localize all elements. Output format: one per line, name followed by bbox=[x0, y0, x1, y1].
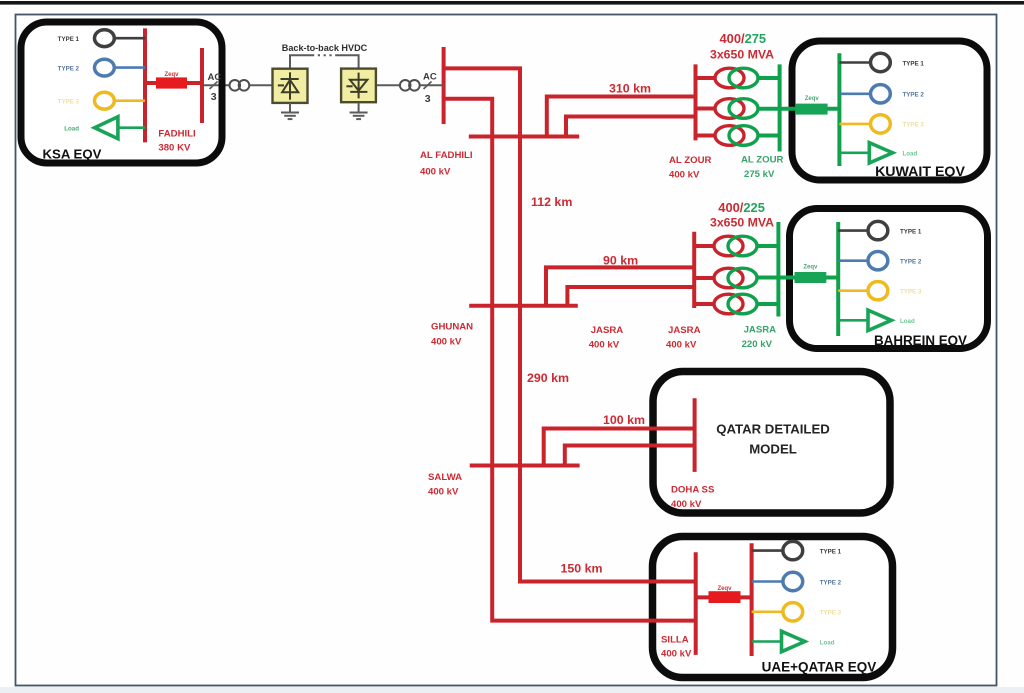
generator TYPE 3 (BAHREIN) wire bbox=[838, 289, 868, 292]
svg-text:TYPE 3: TYPE 3 bbox=[900, 289, 922, 296]
svg-text:AL ZOUR: AL ZOUR bbox=[741, 155, 784, 166]
bus JASRA 400 kV bbox=[692, 232, 696, 308]
wire transformer to rectifier bbox=[249, 84, 272, 86]
ground (rectifier) bbox=[281, 103, 299, 119]
svg-text:KUWAIT EQV: KUWAIT EQV bbox=[875, 164, 965, 180]
thyristor (inverter, pointing down) bbox=[346, 73, 367, 99]
svg-text:3: 3 bbox=[425, 93, 431, 105]
generator TYPE 1 (KSA) wire bbox=[114, 37, 145, 40]
svg-text:MODEL: MODEL bbox=[749, 442, 797, 457]
svg-text:Load: Load bbox=[64, 126, 79, 133]
wire KSA bar to converter transformer bbox=[202, 84, 229, 86]
svg-text:Zeqv: Zeqv bbox=[164, 72, 179, 78]
generator TYPE 2 (BAHREIN) bbox=[868, 252, 888, 270]
load arrow (KSA) wire bbox=[118, 126, 145, 129]
generator TYPE 3 (UAE) wire bbox=[752, 610, 782, 613]
svg-text:Zeqv: Zeqv bbox=[805, 96, 820, 102]
wire FADHILI impedance link bbox=[145, 81, 202, 85]
svg-text:400 kV: 400 kV bbox=[669, 170, 700, 181]
generator TYPE 2 (KUWAIT) wire bbox=[839, 93, 870, 96]
wire second circuit to AL ZOUR bbox=[566, 117, 696, 137]
generator TYPE 1 (BAHREIN) bbox=[868, 221, 888, 239]
generator TYPE 2 (KSA) wire bbox=[114, 66, 145, 69]
generator TYPE 1 (UAE) bbox=[783, 541, 803, 559]
load arrow (KUWAIT) wire bbox=[839, 152, 869, 155]
transformer JASRA row1 bbox=[714, 236, 757, 256]
load arrow (BAHREIN) wire bbox=[838, 319, 868, 322]
wire transformer stub red (AL ZOUR row1) bbox=[696, 76, 717, 80]
phase tick (right AC/3) bbox=[424, 82, 432, 90]
wire transformer stub red (AL ZOUR row3) bbox=[696, 134, 717, 138]
wire transformer to AL FADHILI bus bbox=[420, 84, 444, 86]
bus UAE equivalent 400 kV bbox=[750, 543, 754, 656]
svg-text:400 kV: 400 kV bbox=[420, 167, 451, 178]
wire transformer stub red (JASRA row3) bbox=[694, 302, 715, 306]
svg-text:JASRA: JASRA bbox=[591, 325, 624, 336]
svg-text:TYPE 2: TYPE 2 bbox=[58, 66, 80, 73]
node DC link bbox=[290, 55, 312, 68]
svg-text:Zeqv: Zeqv bbox=[717, 586, 732, 592]
UAE+QATAR EQV box bbox=[653, 537, 893, 678]
svg-text:TYPE 2: TYPE 2 bbox=[903, 92, 925, 99]
bottom light band bbox=[0, 687, 1024, 693]
bus DOHA SS 400 kV bbox=[693, 398, 697, 472]
phase tick (left AC/3) bbox=[210, 82, 218, 90]
wire inverter to transformer bbox=[376, 84, 400, 86]
generator TYPE 3 (KUWAIT) wire bbox=[839, 123, 870, 126]
impedance Zeqv (KSA) bbox=[156, 77, 187, 88]
generator TYPE 3 (KSA) bbox=[95, 92, 115, 109]
wire transformer stub red (JASRA row1) bbox=[694, 244, 715, 248]
svg-text:Load: Load bbox=[820, 639, 835, 646]
bus SALWA 400 kV bbox=[470, 464, 580, 468]
transformer AL ZOUR row2 bbox=[715, 99, 758, 119]
svg-text:400/275: 400/275 bbox=[720, 31, 767, 46]
svg-text:275 kV: 275 kV bbox=[744, 169, 775, 180]
generator TYPE 1 (KUWAIT) bbox=[871, 53, 891, 71]
svg-text:400 kV: 400 kV bbox=[589, 340, 620, 351]
generator TYPE 1 (BAHREIN) wire bbox=[838, 229, 868, 232]
load arrow (UAE, pointing right) bbox=[782, 631, 805, 651]
svg-text:150 km: 150 km bbox=[561, 562, 603, 576]
svg-text:AC: AC bbox=[423, 72, 437, 83]
svg-text:SILLA: SILLA bbox=[661, 635, 689, 646]
generator TYPE 3 (UAE) bbox=[783, 603, 803, 621]
wire transformer stub green (JASRA row1) bbox=[756, 244, 778, 248]
wire Zeqv link AL ZOUR to KUWAIT bbox=[757, 107, 839, 111]
node KSA boundary bar bbox=[200, 48, 204, 123]
converter valve box (inverter) bbox=[341, 69, 376, 103]
wire jumper below AL FADHILI bbox=[469, 135, 579, 139]
svg-text:AL ZOUR: AL ZOUR bbox=[669, 155, 712, 166]
svg-text:AL FADHILI: AL FADHILI bbox=[420, 150, 473, 161]
wire Zeqv link JASRA to BAHREIN bbox=[756, 276, 838, 280]
BAHREIN EQV box bbox=[790, 209, 988, 349]
svg-text:3x650 MVA: 3x650 MVA bbox=[710, 47, 774, 61]
svg-text:DOHA SS: DOHA SS bbox=[671, 485, 715, 496]
svg-text:TYPE 3: TYPE 3 bbox=[820, 610, 842, 617]
generator TYPE 2 (KUWAIT) bbox=[871, 85, 891, 103]
wire transformer stub red (JASRA row2) bbox=[694, 276, 715, 280]
wire second circuit to JASRA bbox=[567, 287, 694, 306]
wire GHUNAN jumper bbox=[469, 304, 578, 308]
bus KUWAIT equivalent bbox=[837, 53, 841, 166]
svg-text:BAHREIN EQV: BAHREIN EQV bbox=[874, 333, 967, 348]
wire line 90 km to JASRA bbox=[546, 267, 694, 305]
wire transformer stub red (AL ZOUR row2) bbox=[696, 107, 717, 111]
generator TYPE 2 (UAE) wire bbox=[752, 580, 782, 583]
svg-text:KSA EQV: KSA EQV bbox=[43, 147, 102, 162]
svg-text:400 kV: 400 kV bbox=[661, 649, 692, 660]
svg-text:TYPE 1: TYPE 1 bbox=[58, 36, 80, 43]
svg-text:TYPE 2: TYPE 2 bbox=[820, 579, 842, 586]
load arrow (KSA, pointing left) bbox=[95, 117, 118, 139]
generator TYPE 2 (UAE) bbox=[783, 572, 803, 590]
svg-text:90 km: 90 km bbox=[603, 254, 638, 268]
svg-text:380 KV: 380 KV bbox=[158, 143, 191, 154]
svg-text:TYPE 2: TYPE 2 bbox=[900, 259, 922, 266]
transformer JASRA row2 bbox=[714, 268, 757, 288]
generator TYPE 1 (KUWAIT) wire bbox=[839, 61, 870, 64]
KUWAIT EQV box bbox=[792, 41, 987, 180]
svg-text:3x650 MVA: 3x650 MVA bbox=[710, 216, 774, 230]
bus AL ZOUR 400 kV bbox=[694, 64, 698, 140]
svg-text:400 kV: 400 kV bbox=[428, 487, 459, 498]
svg-text:Load: Load bbox=[903, 150, 918, 157]
svg-text:TYPE 3: TYPE 3 bbox=[903, 122, 925, 129]
load arrow (UAE) wire bbox=[752, 640, 782, 643]
generator TYPE 2 (KSA) bbox=[95, 59, 115, 76]
svg-text:310 km: 310 km bbox=[609, 82, 651, 96]
transformer AL ZOUR row1 bbox=[715, 68, 758, 88]
svg-text:Back-to-back HVDC: Back-to-back HVDC bbox=[282, 43, 368, 53]
transformer T2 (AL FADHILI side) bbox=[400, 80, 411, 91]
wire transformer stub green (JASRA row3) bbox=[756, 302, 778, 306]
KSA box border patch over wire bbox=[219, 81, 226, 90]
svg-text:GHUNAN: GHUNAN bbox=[431, 322, 473, 333]
generator TYPE 1 (KSA) bbox=[95, 30, 115, 47]
svg-text:FADHILI: FADHILI bbox=[158, 129, 196, 140]
svg-text:220 kV: 220 kV bbox=[742, 339, 773, 350]
svg-text:112 km: 112 km bbox=[531, 195, 572, 209]
svg-text:TYPE 1: TYPE 1 bbox=[903, 60, 925, 67]
wire second circuit to DOHA SS bbox=[565, 446, 695, 466]
transformer JASRA row3 bbox=[714, 294, 757, 314]
bus SILLA 400 kV bbox=[694, 552, 698, 655]
transformer AL ZOUR row3 bbox=[715, 126, 758, 146]
svg-text:SALWA: SALWA bbox=[428, 472, 462, 483]
impedance Zeqv (KUWAIT) bbox=[796, 104, 828, 115]
wire transformer stub green (AL ZOUR row3) bbox=[757, 134, 780, 138]
KSA EQV box bbox=[21, 22, 222, 163]
svg-text:UAE+QATAR EQV: UAE+QATAR EQV bbox=[762, 660, 877, 675]
svg-text:TYPE 1: TYPE 1 bbox=[900, 228, 922, 235]
generator TYPE 1 (UAE) wire bbox=[752, 549, 782, 552]
load arrow (BAHREIN, pointing right) bbox=[868, 310, 891, 330]
wire SILLA to UAE impedance link bbox=[696, 595, 752, 599]
top black bar bbox=[0, 1, 1024, 5]
wire line 100 km to DOHA SS bbox=[544, 429, 695, 466]
generator TYPE 3 (KSA) wire bbox=[114, 99, 145, 102]
svg-text:JASRA: JASRA bbox=[668, 325, 701, 336]
svg-text:QATAR DETAILED: QATAR DETAILED bbox=[716, 422, 830, 437]
bus BAHREIN equivalent bbox=[836, 222, 840, 336]
svg-text:290 km: 290 km bbox=[527, 371, 569, 385]
bus FADHILI 380 kV bbox=[143, 28, 147, 142]
ground (inverter) bbox=[350, 102, 368, 119]
generator TYPE 2 (BAHREIN) wire bbox=[838, 259, 868, 262]
svg-text:TYPE 1: TYPE 1 bbox=[820, 548, 842, 555]
thyristor (rectifier, pointing up) bbox=[278, 72, 299, 99]
svg-text:400 kV: 400 kV bbox=[431, 337, 462, 348]
wire AL FADHILI to west feeder (goes south to 150 km line, SILLA) bbox=[444, 68, 696, 581]
svg-text:3: 3 bbox=[211, 91, 217, 103]
bus JASRA 220 kV bbox=[776, 222, 780, 317]
wire line 310 km to AL ZOUR bbox=[547, 97, 696, 137]
transformer T1 (KSA side) bbox=[230, 80, 241, 91]
generator TYPE 3 (BAHREIN) bbox=[868, 282, 888, 300]
svg-text:400 kV: 400 kV bbox=[671, 499, 702, 510]
svg-text:400 kV: 400 kV bbox=[666, 340, 697, 351]
svg-text:JASRA: JASRA bbox=[744, 325, 777, 336]
QATAR DETAILED MODEL box bbox=[653, 372, 890, 514]
impedance Zeqv (BAHREIN) bbox=[795, 272, 827, 283]
bus AL ZOUR 275 kV bbox=[778, 64, 782, 151]
svg-text:Zeqv: Zeqv bbox=[803, 265, 818, 271]
svg-text:100 km: 100 km bbox=[603, 413, 645, 427]
generator TYPE 3 (KUWAIT) bbox=[871, 115, 891, 133]
svg-text:Load: Load bbox=[900, 318, 915, 325]
wire transformer stub green (AL ZOUR row1) bbox=[757, 76, 780, 80]
converter valve box (rectifier) bbox=[273, 69, 308, 103]
impedance Zeqv (UAE) bbox=[709, 591, 741, 603]
svg-text:400/225: 400/225 bbox=[718, 200, 765, 215]
bus AL FADHILI 400 kV bbox=[442, 47, 446, 124]
load arrow (KUWAIT, pointing right) bbox=[869, 143, 892, 163]
wire AL FADHILI to east feeder (goes south to lower SILLA line) bbox=[444, 99, 696, 621]
svg-text:TYPE 3: TYPE 3 bbox=[58, 99, 80, 106]
